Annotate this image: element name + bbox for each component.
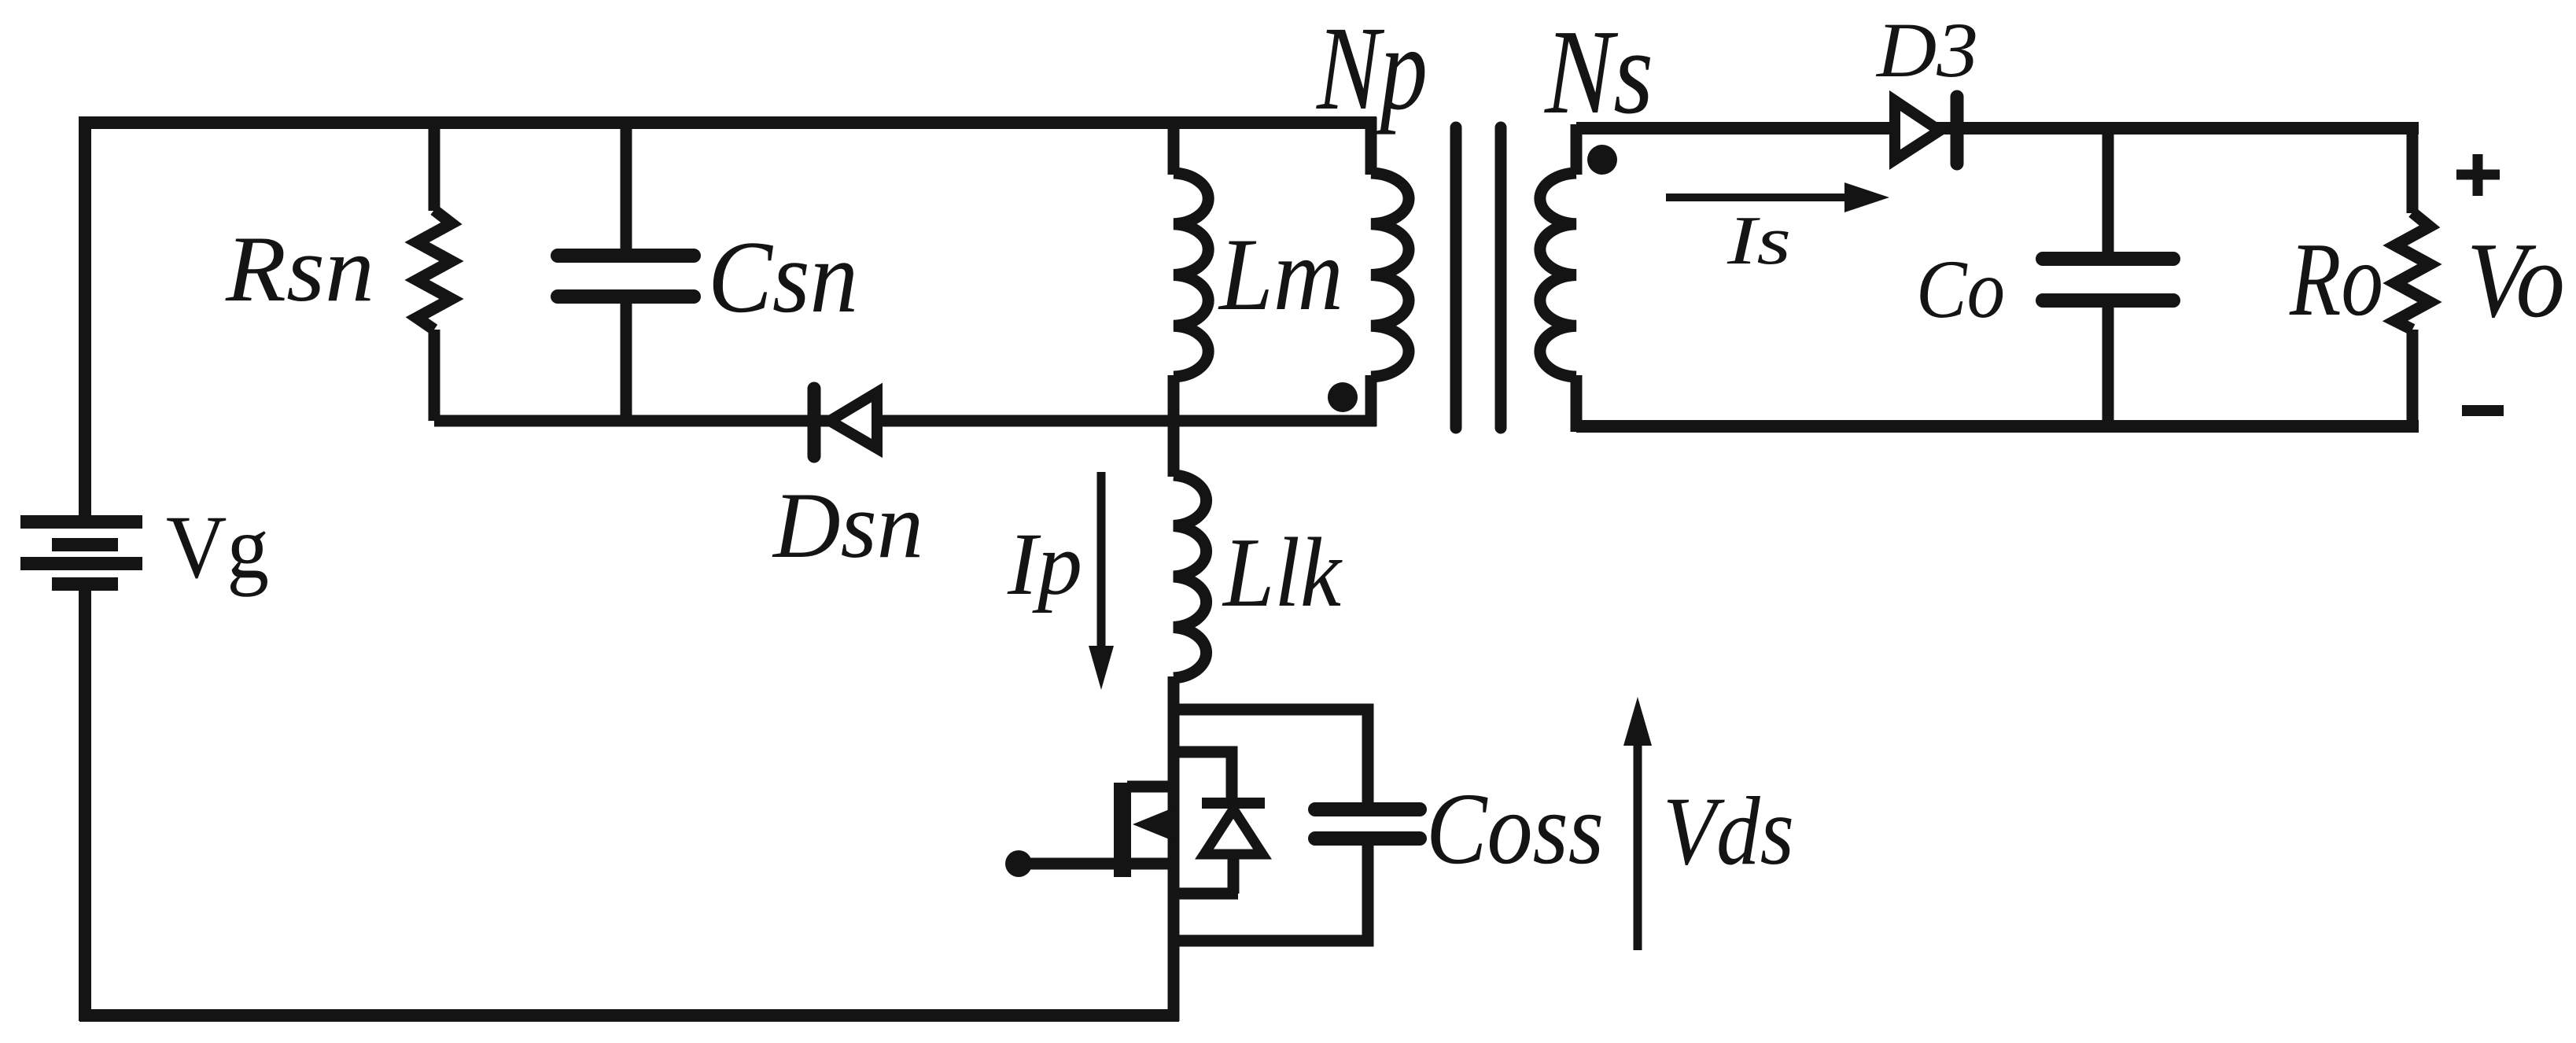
diode D3	[1895, 101, 1940, 160]
inductor Lm	[1174, 173, 1208, 377]
capacitor Co plates	[2043, 252, 2173, 266]
wire: Ns top lead	[1571, 124, 1583, 175]
svg-text:Co: Co	[1916, 243, 2005, 335]
body diode triangle	[1204, 809, 1262, 854]
arrow Vds	[1634, 743, 1642, 950]
wire: left vertical (Vg bottom lead)	[79, 591, 91, 1021]
winding Np coil	[1371, 173, 1409, 377]
body diode cathode bar	[1202, 798, 1265, 809]
wire: Np bottom lead	[1365, 375, 1377, 426]
wire: Ns bottom lead	[1571, 375, 1583, 432]
svg-text:Coss: Coss	[1426, 772, 1604, 886]
node: Ns polarity dot	[1587, 145, 1617, 175]
inductor Llk	[1174, 475, 1207, 678]
wire: drain/source vertical	[1168, 676, 1180, 1021]
svg-text:Lm: Lm	[1218, 216, 1343, 332]
svg-text:Ro: Ro	[2289, 221, 2383, 337]
capacitor Coss	[1315, 802, 1420, 816]
svg-text:Rsn: Rsn	[225, 216, 374, 321]
wire: left vertical (Vg top lead)	[79, 116, 91, 518]
wire: secondary top rail	[1576, 122, 2419, 135]
body diode branch bottom	[1174, 888, 1238, 900]
transistor Q1 arrow	[1133, 807, 1175, 842]
wire: body diode anode lead	[1228, 854, 1240, 894]
resistor Rsn zigzag	[417, 210, 451, 330]
transistor Q1 gate node dot	[1005, 850, 1032, 877]
transistor Q1 gate bar	[1114, 783, 1131, 877]
capacitor Csn plates	[558, 249, 694, 263]
svg-text:D3: D3	[1875, 6, 1978, 94]
label plus sign	[2473, 154, 2483, 196]
wire: snubber bottom rail	[434, 415, 1376, 427]
transistor Q1 drain tick	[1127, 781, 1178, 793]
svg-text:Llk: Llk	[1222, 518, 1343, 628]
diode Dsn	[830, 393, 877, 448]
winding Ns coil	[1540, 173, 1576, 377]
resistor Ro zigzag	[2395, 212, 2430, 330]
wire: Rsn top lead	[429, 123, 440, 211]
wire: bottom rail	[79, 1009, 1179, 1022]
label minus sign	[2462, 405, 2504, 416]
battery Vg	[20, 515, 142, 591]
transformer core	[1450, 127, 1462, 428]
svg-text:Vo: Vo	[2467, 220, 2565, 340]
wire: Csn top lead	[621, 123, 632, 257]
wire: Np top lead	[1365, 117, 1377, 175]
wire: secondary bottom rail	[1576, 420, 2419, 433]
svg-text:Np: Np	[1315, 2, 1428, 135]
svg-text:Vg: Vg	[166, 497, 269, 597]
wire: Lm to Llk segment	[1168, 375, 1180, 477]
wire: Ro bottom lead	[2407, 330, 2419, 426]
svg-text:Ip: Ip	[1007, 515, 1082, 614]
wire: top primary rail	[79, 116, 1376, 129]
node: Np polarity dot	[1328, 382, 1358, 412]
svg-text:Csn: Csn	[708, 220, 858, 334]
wire: Co top lead	[2102, 128, 2114, 260]
wire: gate lead	[1019, 858, 1178, 870]
svg-text:Ns: Ns	[1543, 6, 1653, 139]
wire: Ro top lead	[2407, 128, 2419, 213]
svg-text:Is: Is	[1727, 203, 1791, 279]
arrow Ip	[1097, 472, 1106, 654]
Coss branch rectangle top	[1174, 709, 1368, 811]
wire: primary center vertical	[1168, 123, 1180, 175]
arrow Is	[1666, 193, 1852, 201]
wire: Rsn bottom lead	[429, 330, 440, 421]
body diode branch top	[1174, 752, 1232, 803]
svg-text:Vds: Vds	[1663, 777, 1794, 885]
wire: Co bottom lead	[2102, 301, 2114, 426]
wire: Csn bottom lead	[621, 297, 632, 421]
svg-text:Dsn: Dsn	[772, 473, 923, 577]
